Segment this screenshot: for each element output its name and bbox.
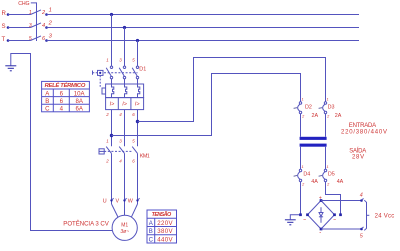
wire transformer to D5 (325, 147, 327, 170)
svg-text:CHG: CHG (18, 1, 29, 7)
breaker D3 (324, 102, 326, 104)
contactor KM1 pole 3 (132, 147, 138, 154)
svg-text:2: 2 (105, 112, 109, 117)
motor M1 (112, 215, 137, 240)
wire pole1 breaker to contactor (111, 110, 113, 147)
svg-text:6A: 6A (75, 106, 83, 113)
svg-text:6: 6 (42, 36, 46, 42)
wire PE earth run (11, 54, 113, 231)
contactor KM1 coil (99, 149, 104, 154)
table RELE TERMICO (42, 81, 90, 111)
svg-text:1: 1 (327, 165, 329, 169)
bridge rectifier (308, 201, 335, 230)
svg-text:R: R (2, 10, 7, 17)
svg-text:3ø~: 3ø~ (120, 229, 129, 235)
svg-text:4: 4 (360, 192, 363, 198)
wire D4 to bridge (300, 182, 302, 215)
breaker D1 trip linkage dashed (99, 75, 101, 88)
terminal W (136, 199, 138, 201)
bracket 24Vcc (364, 200, 366, 230)
contactor KM1 pole 2 (119, 147, 125, 154)
wire bridge minus output (321, 228, 362, 230)
svg-text:D4: D4 (303, 171, 310, 177)
svg-text:T: T (2, 36, 6, 43)
svg-text:~: ~ (303, 217, 306, 223)
svg-text:B: B (149, 228, 153, 235)
svg-text:2: 2 (326, 183, 330, 187)
breaker D1 trip tab (102, 88, 106, 94)
thermal element pole 2 (125, 84, 127, 98)
svg-text:TENSÃO: TENSÃO (152, 211, 172, 218)
svg-text:6: 6 (132, 112, 135, 117)
svg-text:1: 1 (327, 97, 329, 101)
node L3 tap (136, 39, 139, 42)
svg-text:2: 2 (41, 10, 46, 16)
svg-text:2: 2 (326, 115, 330, 119)
wire bus L1 (47, 14, 360, 16)
terminal U (110, 199, 112, 201)
thermal element pole 1 (112, 84, 114, 98)
svg-text:M1: M1 (121, 223, 128, 229)
svg-text:3: 3 (49, 34, 53, 40)
breaker D5 (324, 169, 326, 171)
svg-text:5: 5 (360, 233, 364, 239)
svg-text:B: B (45, 98, 49, 105)
switch CHG linkage (31, 3, 37, 41)
transformer T1 primary bar (300, 137, 327, 140)
svg-text:220/380/440V: 220/380/440V (341, 130, 387, 136)
svg-text:1: 1 (302, 165, 304, 169)
svg-text:I>: I> (110, 102, 115, 108)
svg-text:2A: 2A (312, 113, 319, 119)
wire D3 to transformer (325, 114, 327, 137)
svg-text:I>: I> (122, 102, 127, 108)
ground DC (290, 215, 300, 220)
svg-text:~: ~ (333, 217, 336, 223)
svg-text:5: 5 (132, 139, 135, 144)
wire pole1 contactor to motor (111, 154, 113, 204)
svg-text:10A: 10A (74, 90, 86, 97)
breaker D1 pole 1 contacts (110, 66, 112, 68)
svg-text:6: 6 (132, 159, 135, 164)
node L1 tap (110, 13, 113, 16)
disconnect switch pole T (7, 39, 10, 42)
wire phase A drop (111, 15, 113, 67)
contactor KM1 pole 1 (106, 147, 112, 154)
disconnect switch pole R (7, 13, 10, 16)
wire control R to right (112, 74, 301, 136)
wire pole2 contactor to motor (124, 154, 126, 216)
svg-text:D3: D3 (328, 105, 335, 111)
svg-text:5: 5 (29, 36, 32, 42)
terminal 5 (360, 228, 363, 231)
wire bridge plus output (321, 200, 362, 202)
svg-text:A: A (149, 220, 154, 227)
wire phase C drop (137, 41, 139, 67)
contactor KM1 link dashed (104, 150, 133, 152)
breaker D4 (299, 169, 301, 171)
svg-text:220V: 220V (157, 220, 173, 227)
svg-text:3: 3 (119, 58, 122, 63)
wire pole3 breaker to contactor (137, 110, 139, 147)
breaker D1 magnetic trip boxes (106, 98, 144, 110)
svg-text:2: 2 (105, 159, 109, 164)
svg-text:1: 1 (106, 58, 109, 63)
breaker D1 actuator (92, 71, 94, 75)
svg-text:440V: 440V (157, 236, 173, 243)
breaker D1 pole 3 contacts (136, 66, 138, 68)
transformer T1 secondary bar (300, 144, 327, 147)
svg-text:ENTRADA: ENTRADA (349, 123, 376, 129)
svg-text:2A: 2A (335, 113, 342, 119)
svg-text:24 Vcc: 24 Vcc (375, 213, 395, 219)
svg-text:POTÊNCIA 3 CV: POTÊNCIA 3 CV (63, 220, 109, 228)
svg-text:1: 1 (302, 97, 304, 101)
wire bus L3 (47, 40, 360, 42)
terminal V (123, 199, 125, 201)
svg-text:D2: D2 (305, 105, 312, 111)
svg-text:1: 1 (49, 8, 52, 14)
svg-text:S: S (2, 23, 6, 30)
svg-text:4A: 4A (311, 179, 318, 185)
wire U slant into motor (112, 204, 119, 217)
wire W slant into motor (131, 204, 137, 217)
node control tap R (110, 134, 113, 137)
breaker D2 (299, 102, 301, 104)
disconnect switch pole S (7, 26, 10, 29)
svg-text:D5: D5 (328, 171, 335, 177)
svg-text:4: 4 (119, 159, 122, 164)
svg-text:1: 1 (106, 139, 109, 144)
wire bus L2 (47, 27, 360, 29)
wire pole3 contactor to motor (137, 154, 139, 204)
bridge corner squares (299, 199, 342, 230)
svg-text:28V: 28V (352, 154, 364, 160)
svg-text:3: 3 (29, 23, 32, 29)
terminal 4 (360, 199, 363, 202)
breaker D1 pole 2 contacts (123, 66, 125, 68)
svg-text:I>: I> (135, 102, 140, 108)
svg-text:2: 2 (48, 21, 53, 27)
svg-text:4A: 4A (337, 179, 344, 185)
svg-text:U: U (103, 199, 107, 205)
bridge diode (320, 207, 322, 212)
svg-text:RELÉ TÉRMICO: RELÉ TÉRMICO (45, 81, 86, 89)
svg-text:W: W (128, 199, 134, 205)
svg-text:5: 5 (132, 58, 135, 63)
wire phase B drop (124, 28, 126, 67)
node control tap T (136, 120, 139, 123)
svg-text:2: 2 (301, 115, 305, 119)
svg-text:-: - (319, 230, 321, 236)
wire control T to right (138, 58, 326, 122)
thermal element pole 3 (138, 84, 140, 98)
svg-text:V: V (116, 199, 120, 205)
svg-text:380V: 380V (157, 228, 173, 235)
trip I> labels (110, 102, 140, 108)
wire D5 to bridge (326, 182, 341, 215)
svg-text:D1: D1 (139, 67, 146, 73)
svg-text:1: 1 (29, 10, 32, 16)
svg-text:2: 2 (301, 183, 305, 187)
svg-text:8A: 8A (75, 98, 83, 105)
table TENSAO (147, 210, 177, 243)
svg-text:C: C (149, 236, 154, 243)
node L2 tap (123, 26, 126, 29)
wire pole2 breaker to contactor (124, 110, 126, 147)
wire transformer to D4 (300, 147, 302, 170)
svg-text:3: 3 (119, 139, 122, 144)
breaker D1 thermal box (106, 84, 144, 98)
wire D2 to transformer (300, 114, 302, 137)
ground PE (5, 66, 16, 71)
svg-text:4: 4 (42, 23, 45, 29)
svg-text:KM1: KM1 (140, 154, 150, 160)
svg-text:C: C (45, 106, 50, 113)
breaker D1 mech link dashed (104, 72, 138, 74)
svg-text:4: 4 (119, 112, 122, 117)
